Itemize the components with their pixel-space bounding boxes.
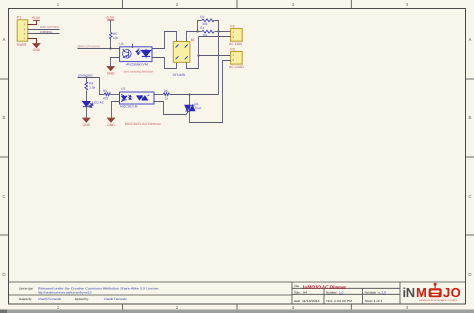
opto-triac U2 <box>120 92 155 104</box>
connector P3 <box>231 52 243 65</box>
wire neutral tee to P3 pin1 <box>199 55 231 57</box>
svg-text:DF10MB: DF10MB <box>173 73 186 77</box>
svg-text:AC LOAD: AC LOAD <box>229 65 244 69</box>
svg-text:Triac: Triac <box>194 106 201 110</box>
connector P2 pin numbers <box>232 30 234 39</box>
triac Q1 <box>185 95 195 115</box>
ground symbol below U2 <box>107 118 115 122</box>
wire P1 pin1 to +5V <box>28 21 37 25</box>
svg-text:MOC3021M: MOC3021M <box>120 105 138 109</box>
svg-text:1 of 1: 1 of 1 <box>374 299 383 303</box>
U1 base pin stub <box>132 44 134 48</box>
wire R5 to zero-crossing node <box>110 39 112 49</box>
bottom gray screen band <box>0 310 474 313</box>
power +5.0V symbol at P1 <box>33 19 40 21</box>
svg-text:GND: GND <box>33 48 41 52</box>
robot head glyph <box>429 283 442 297</box>
connector P1 pin numbers <box>24 23 26 41</box>
frame row tick marks left <box>0 79 9 235</box>
svg-text:Approved by:: Approved by: <box>75 297 89 301</box>
resistor R3 zigzag <box>104 93 110 96</box>
wire LED1 to ground <box>86 107 88 118</box>
license box <box>9 282 466 304</box>
frame zone letters <box>2 37 472 277</box>
resistor R2 zigzag <box>202 19 214 22</box>
triac inside U2 <box>137 95 149 101</box>
svg-text:LED-AC: LED-AC <box>92 100 104 104</box>
svg-text:R3: R3 <box>103 89 107 93</box>
wire P1 pin3 dimming stub <box>28 33 60 35</box>
svg-text:iN: iN <box>403 285 415 300</box>
wire U2 pin6 to R6 <box>155 94 164 96</box>
bridge rectifier B1 <box>173 42 190 63</box>
ground symbol below U1 <box>107 66 115 70</box>
svg-text:B: B <box>2 115 5 120</box>
svg-text:A: A <box>468 37 471 42</box>
resistor R1 zigzag <box>202 30 214 33</box>
svg-text:R1: R1 <box>200 26 204 30</box>
wire U1 anode to bridge TL <box>153 32 177 49</box>
power +5.0V symbol above R5 <box>107 19 114 21</box>
frame column tick marks bottom <box>123 304 352 310</box>
svg-text:Number: Number <box>326 290 337 294</box>
svg-text:Title: Title <box>294 284 300 288</box>
svg-text:Size: Size <box>294 290 300 294</box>
junction resistor pair right <box>217 30 219 32</box>
svg-text:P1: P1 <box>17 16 21 20</box>
svg-text:U2: U2 <box>121 87 125 91</box>
LED inside U1 <box>136 48 151 58</box>
svg-text:P3: P3 <box>230 47 234 51</box>
wire +5V to R5 <box>110 21 112 33</box>
resistor R5 vertical zigzag <box>109 33 112 39</box>
svg-text:R6: R6 <box>164 89 168 93</box>
resistor R4 vertical zigzag <box>85 82 88 90</box>
transistor inside U1 <box>123 49 132 58</box>
wire U2 cathode to ground <box>112 102 120 118</box>
svg-text:Designed by:: Designed by: <box>19 297 32 301</box>
svg-text:470: 470 <box>103 96 109 100</box>
svg-text:+5.0V: +5.0V <box>31 16 41 20</box>
svg-text:GND: GND <box>107 123 115 127</box>
wire bridge TR to resistor pair <box>187 32 198 42</box>
svg-text:1.5k: 1.5k <box>89 85 95 89</box>
opto-coupler U1 <box>120 44 152 62</box>
svg-text:AC 110V: AC 110V <box>229 42 243 46</box>
wire U1 emitter to ground <box>111 58 120 67</box>
bottom-left dark corner block <box>0 310 7 313</box>
svg-text:GND: GND <box>83 123 91 127</box>
wire U2 pin4 to triac gate <box>155 102 187 115</box>
frame row tick marks right <box>466 79 474 235</box>
wire bridge BR to neutral line <box>187 37 199 69</box>
svg-text:MOC3021 AC Dimmer: MOC3021 AC Dimmer <box>125 122 162 126</box>
wire zero-crossing to U1 collector <box>78 48 120 50</box>
svg-text:1k: 1k <box>165 96 169 100</box>
connector P3 pin numbers <box>232 53 234 62</box>
svg-text:DIMMING: DIMMING <box>40 30 53 34</box>
wire P1 pin4 to ground <box>28 39 37 44</box>
wire R4 to LED1 <box>86 91 88 102</box>
frame zone numbers <box>57 2 409 310</box>
connector P1 <box>17 20 28 41</box>
frame column tick marks top <box>123 0 352 9</box>
wire resistor pair right tie to P2 <box>215 21 219 32</box>
svg-text:A4: A4 <box>303 290 307 294</box>
svg-text:Charith Fernando: Charith Fernando <box>38 297 61 301</box>
junction zero-crossing node <box>109 47 111 49</box>
svg-text:zero crossing detection: zero crossing detection <box>124 69 154 73</box>
svg-text:M: M <box>416 285 427 300</box>
svg-text:Charith Fernando: Charith Fernando <box>104 297 127 301</box>
wire resistor pair left tie <box>198 21 202 32</box>
svg-text:License type:: License type: <box>19 286 34 290</box>
wire P1 pin2 zero-crossing stub <box>28 29 60 31</box>
ground symbol below LED1 <box>82 118 90 122</box>
svg-text:GND: GND <box>107 72 115 76</box>
svg-text:http://creativecommons.org/lic: http://creativecommons.org/licenses/by-s… <box>38 291 92 295</box>
svg-text:v.: v. <box>379 290 381 294</box>
title block grid <box>292 282 400 304</box>
svg-text:10k: 10k <box>113 36 119 40</box>
LED inside U2 <box>121 94 131 102</box>
svg-text:JO: JO <box>443 285 461 300</box>
svg-text:Sheet: Sheet <box>365 299 373 303</box>
wire hot line down to triac node <box>218 32 220 95</box>
connector P2 <box>231 29 243 42</box>
wire R3 to U2 pin1 <box>111 94 120 96</box>
svg-text:www.inmojo.com: www.inmojo.com <box>419 299 457 302</box>
svg-text:U1: U1 <box>119 42 123 46</box>
svg-text:11/13/2013: 11/13/2013 <box>302 299 320 303</box>
wire U1 cathode to bridge BL <box>153 58 177 69</box>
junction triac MT2 node <box>188 93 190 95</box>
wire P3 pin2 to triac MT1 <box>190 61 231 123</box>
svg-text:Time: Time <box>326 299 333 303</box>
resistor R6 zigzag <box>163 93 169 96</box>
svg-text:1:34:24 PM: 1:34:24 PM <box>334 299 352 303</box>
svg-text:ZERO-CROSSING: ZERO-CROSSING <box>40 25 60 29</box>
junction resistor pair left <box>196 30 198 32</box>
svg-text:R2: R2 <box>200 15 204 19</box>
junction neutral tee <box>197 54 199 56</box>
junction dimming node <box>85 76 87 78</box>
svg-text:B1: B1 <box>191 38 195 42</box>
svg-text:+5.0V: +5.0V <box>105 15 115 19</box>
wire dimming net <box>78 78 105 95</box>
svg-text:1.0: 1.0 <box>339 290 344 294</box>
svg-text:Revision: Revision <box>365 290 377 294</box>
inmojo logo <box>403 283 462 302</box>
LED1 symbol <box>83 102 93 108</box>
svg-text:B: B <box>468 115 471 120</box>
svg-text:Date: Date <box>294 299 301 303</box>
wire R6 to triac node <box>170 94 219 96</box>
svg-text:2.0: 2.0 <box>382 290 387 294</box>
svg-text:4N25MK/VM: 4N25MK/VM <box>126 62 148 66</box>
svg-text:A: A <box>2 37 5 42</box>
svg-text:P2: P2 <box>230 24 234 28</box>
svg-text:Digital: Digital <box>17 43 27 47</box>
wire dimming node to R4 <box>86 78 88 83</box>
wire P2 pin2 to neutral corner <box>199 36 231 38</box>
ground symbol at P1 <box>32 43 40 47</box>
